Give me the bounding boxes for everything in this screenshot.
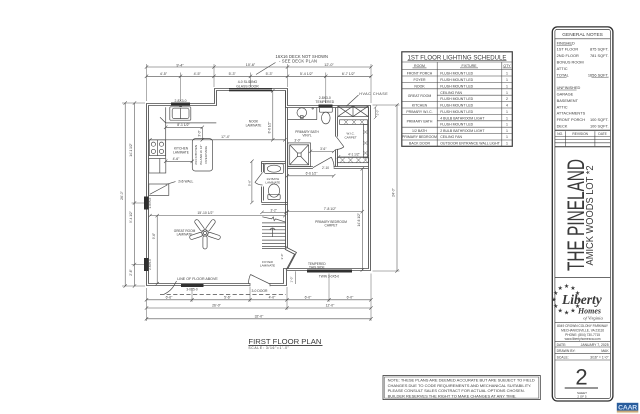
svg-text:- SEE DECK PLAN: - SEE DECK PLAN [279, 59, 317, 64]
svg-text:LINE OF FLOOR ABOVE: LINE OF FLOOR ABOVE [177, 277, 218, 281]
svg-text:BASEMENT: BASEMENT [557, 98, 579, 103]
wall: bedroom top right segment [334, 167, 369, 169]
svg-text:ATTACHMENTS: ATTACHMENTS [557, 111, 586, 116]
svg-text:1: 1 [506, 116, 508, 120]
window W3 left wall upper 2-8X5-0 [144, 197, 149, 210]
svg-text:32'-0": 32'-0" [255, 314, 264, 318]
half bath vanity with oval sink [264, 164, 283, 174]
kitchen sink [170, 106, 191, 120]
dimension tick 1'-0 porch jog [294, 271, 296, 284]
extension lines top [147, 64, 372, 103]
window W4 left wall lower 2-8X5-0 [144, 258, 149, 271]
label: primary bedroom [315, 220, 347, 228]
refrigerator [149, 159, 166, 174]
svg-text:2-8X5-0: 2-8X5-0 [148, 259, 152, 270]
svg-text:OUTDOOR ENTRANCE WALL LIGHT: OUTDOOR ENTRANCE WALL LIGHT [440, 142, 500, 146]
svg-text:LAMINATE: LAMINATE [177, 233, 193, 237]
svg-text:1'-0": 1'-0" [290, 277, 294, 283]
svg-text:FIRST FLOOR PLAN: FIRST FLOOR PLAN [248, 337, 321, 346]
stairs break line [262, 217, 286, 222]
label: sliding glass door [236, 80, 259, 88]
svg-text:2: 2 [506, 97, 508, 101]
svg-text:6'-6": 6'-6" [166, 296, 174, 300]
svg-text:DECK: DECK [557, 124, 568, 129]
svg-text:ATTIC: ATTIC [557, 66, 568, 71]
svg-text:★: ★ [564, 283, 569, 290]
svg-text:7'-8 1/2": 7'-8 1/2" [324, 207, 337, 211]
svg-text:LAMINATE: LAMINATE [265, 181, 280, 185]
shower with X [288, 143, 311, 167]
note box text [388, 378, 535, 399]
svg-text:NOOK: NOOK [414, 84, 425, 88]
label: nook [246, 120, 262, 128]
svg-text:LAMINATE: LAMINATE [246, 123, 262, 127]
svg-text:6'-6 1/2": 6'-6 1/2" [306, 172, 318, 176]
svg-text:1: 1 [506, 110, 508, 114]
lighting schedule table text [402, 55, 511, 146]
wall: foyer angled east wall [285, 247, 297, 270]
svg-text:4'-1 1/2": 4'-1 1/2" [348, 153, 360, 157]
svg-text:CARPET: CARPET [325, 224, 338, 228]
dimension line half bath 5'-6" vertical [250, 160, 253, 205]
dimension line bottom row 1 [145, 298, 373, 301]
svg-text:6'-0": 6'-0" [305, 296, 313, 300]
door: bedroom door panel and swing [313, 157, 334, 168]
svg-text:THIS SIDE: THIS SIDE [309, 266, 325, 270]
date drawn scale rows [555, 342, 611, 360]
svg-text:CAAR: CAAR [618, 404, 637, 411]
ceiling fan great room [189, 219, 221, 249]
leader: 2x6 wall [166, 182, 176, 185]
svg-text:FINISHED: FINISHED [557, 40, 575, 45]
svg-text:5'-3": 5'-3" [266, 72, 274, 76]
svg-text:1: 1 [506, 135, 508, 139]
svg-text:BACK DOOR: BACK DOOR [409, 142, 430, 146]
svg-text:1656 SQFT.: 1656 SQFT. [588, 72, 609, 77]
svg-text:TWIN 3-0X5-0: TWIN 3-0X5-0 [319, 275, 340, 279]
stairs UP arrow [270, 228, 275, 237]
svg-text:2 OF 5: 2 OF 5 [577, 395, 587, 399]
window sliding glass door 4-0 [229, 88, 272, 91]
wall: half bath left lower stub [262, 187, 264, 203]
svg-text:FLUSH MOUNT LED: FLUSH MOUNT LED [440, 78, 473, 82]
svg-text:TEMPERED: TEMPERED [315, 100, 334, 104]
dimension line great room 15'-10 1/2" [148, 214, 286, 217]
svg-text:4'-5": 4'-5" [160, 72, 168, 76]
svg-text:PHONE: (804) 730-7715: PHONE: (804) 730-7715 [565, 333, 600, 337]
svg-text:★: ★ [570, 308, 575, 315]
svg-text:26'-0": 26'-0" [212, 304, 221, 308]
project name: THE PINELAND rotated [564, 159, 590, 271]
svg-text:6'-0": 6'-0" [347, 296, 355, 300]
wire: exterior wall outer face [147, 89, 371, 286]
svg-text:1ST FLOOR LIGHTING SCHEDULE: 1ST FLOOR LIGHTING SCHEDULE [408, 55, 507, 62]
window W1 kitchen north 2-8X3-0 [171, 103, 190, 106]
WIC bottom shelf band [337, 158, 368, 163]
svg-text:5'-6": 5'-6" [247, 180, 251, 186]
svg-text:PRIMARY BATH: PRIMARY BATH [407, 120, 433, 124]
svg-text:★: ★ [551, 296, 556, 303]
dimension line kitchen 4'-6" [164, 160, 194, 163]
svg-text:2'-6": 2'-6" [129, 269, 133, 275]
svg-text:ISLAND W 12": ISLAND W 12" [199, 145, 203, 165]
liberty homes logo stars [551, 283, 582, 316]
svg-text:FLUSH MOUNT LED: FLUSH MOUNT LED [440, 72, 473, 76]
svg-text:5'-6": 5'-6" [224, 296, 232, 300]
svg-text:2-8X3-0: 2-8X3-0 [174, 99, 186, 103]
svg-text:1: 1 [506, 129, 508, 133]
svg-text:NO.: NO. [557, 132, 563, 136]
svg-text:GENERAL NOTES: GENERAL NOTES [562, 32, 603, 38]
svg-text:HVAC CHASE: HVAC CHASE [359, 92, 388, 96]
svg-text:DATE:: DATE: [557, 343, 567, 347]
svg-text:SCALE:: SCALE: [557, 355, 569, 359]
label: kitchen island rotated [194, 145, 208, 165]
wall: nook-bath vertical divider [286, 91, 288, 248]
svg-text:OVERHANG: OVERHANG [204, 145, 208, 163]
window W6 bedroom south twin 3-0X5-0 [307, 270, 352, 273]
kitchen island outline box [192, 139, 212, 171]
svg-text:FLUSH MOUNT LED: FLUSH MOUNT LED [440, 110, 473, 114]
svg-text:KITCHEN: KITCHEN [412, 104, 428, 108]
svg-text:100 SQFT.: 100 SQFT. [590, 124, 609, 129]
svg-text:781 SQFT.: 781 SQFT. [590, 53, 609, 58]
svg-text:of Virginia: of Virginia [583, 315, 603, 320]
dimension line top row A [145, 65, 373, 68]
title underline first floor plan [248, 344, 322, 346]
svg-text:26'-0": 26'-0" [120, 190, 124, 199]
label: great room [174, 229, 196, 237]
WIC right shelf band [363, 124, 367, 157]
svg-text:Liberty: Liberty [561, 292, 603, 307]
dimension line stairs 3'-2" [260, 211, 287, 214]
svg-text:BUILDER RESERVES THE RIGHT TO: BUILDER RESERVES THE RIGHT TO MAKE CHANG… [388, 393, 517, 398]
svg-text:CEILING FAN: CEILING FAN [440, 135, 462, 139]
svg-text:4 BULB BATHROOM LIGHT: 4 BULB BATHROOM LIGHT [440, 116, 485, 120]
svg-text:UNFINISHED: UNFINISHED [557, 85, 581, 90]
svg-text:FLUSH MOUNT LED: FLUSH MOUNT LED [440, 104, 473, 108]
svg-text:12'-0": 12'-0" [326, 304, 335, 308]
svg-text:3-0 DOOR: 3-0 DOOR [251, 289, 268, 293]
label: deck note [276, 54, 329, 64]
leader: deck note [256, 63, 276, 75]
half bath toilet [268, 184, 280, 200]
svg-text:8'-6 1/2": 8'-6 1/2" [267, 122, 271, 134]
svg-text:3'-6": 3'-6" [320, 147, 326, 151]
svg-text:4'-0": 4'-0" [269, 296, 277, 300]
svg-text:Homes: Homes [577, 306, 601, 315]
dimension line bottom row 2 [145, 306, 373, 309]
dimension line kitchen 8'-1 1/2" [164, 126, 204, 142]
svg-text:14'-1 1/2": 14'-1 1/2" [129, 143, 133, 156]
separator below logo [555, 321, 611, 323]
window W5 great room south 3-0X5-0 [181, 284, 204, 287]
svg-text:FLUSH MOUNT LED: FLUSH MOUNT LED [440, 84, 473, 88]
sheet number 2 [565, 365, 598, 399]
WIC top shelf band [340, 120, 368, 125]
svg-text:JANUARY 7, 2025: JANUARY 7, 2025 [581, 343, 609, 347]
stairs treads [262, 223, 286, 244]
svg-text:1ST FLOOR: 1ST FLOOR [557, 47, 579, 52]
wall: half bath left upper [262, 162, 264, 173]
svg-text:★: ★ [553, 290, 558, 297]
svg-text:GREAT ROOM: GREAT ROOM [408, 94, 432, 98]
liberty homes logo script [561, 292, 603, 320]
svg-text:17'-4": 17'-4" [221, 135, 230, 139]
svg-text:875 SQFT.: 875 SQFT. [590, 47, 609, 52]
svg-text:CEILING FAN: CEILING FAN [440, 91, 462, 95]
svg-text:1: 1 [506, 78, 508, 82]
svg-text:1: 1 [506, 84, 508, 88]
label: foyer [260, 260, 275, 268]
label: primary bath [295, 130, 319, 138]
svg-text:www.libertyhomesva.com: www.libertyhomesva.com [565, 337, 601, 341]
wall: WIC left upper [336, 108, 338, 137]
general notes text [557, 40, 609, 128]
svg-text:DRAWN BY:: DRAWN BY: [557, 349, 576, 353]
wall: bedroom top left segment [288, 167, 313, 169]
kitchen counter edges [160, 107, 216, 158]
svg-text:5'-3": 5'-3" [229, 72, 237, 76]
label: tempered this side [308, 262, 326, 270]
dimension line left inner [133, 101, 136, 287]
wall: stairs top [262, 203, 288, 205]
label: half bath [265, 177, 280, 185]
dimension line WIC 4'-1 1/2" [337, 155, 369, 158]
svg-text:FLUSH MOUNT LED: FLUSH MOUNT LED [440, 123, 473, 127]
svg-text:★: ★ [558, 308, 563, 315]
svg-text:DATE: DATE [598, 132, 607, 136]
svg-text:1: 1 [506, 72, 508, 76]
svg-text:9'-6": 9'-6" [152, 233, 156, 239]
title block outer border [552, 27, 613, 401]
leader: hvac chase [346, 95, 359, 107]
dimension line hall 6'-6 1/2" [286, 174, 336, 177]
svg-text:2X4 KITCHEN: 2X4 KITCHEN [194, 145, 198, 165]
svg-text:14'-6 1/2": 14'-6 1/2" [357, 213, 361, 226]
svg-text:8049 CROWN COLONY PARKWAY: 8049 CROWN COLONY PARKWAY [557, 324, 609, 328]
svg-text:3'-0": 3'-0" [280, 254, 284, 260]
svg-text:★: ★ [564, 309, 569, 316]
svg-text:TOTAL: TOTAL [557, 72, 570, 77]
separator above logo [555, 277, 611, 279]
door: front entry swing [248, 275, 270, 285]
svg-text:FLUSH MOUNT LED: FLUSH MOUNT LED [440, 97, 473, 101]
svg-text:SCALE: 3/16"=1'-0": SCALE: 3/16"=1'-0" [248, 346, 289, 350]
extension lines bottom [147, 274, 372, 322]
svg-text:QTY: QTY [503, 64, 511, 68]
svg-text:MECHANICSVILLE, VA 23116: MECHANICSVILLE, VA 23116 [561, 328, 604, 332]
svg-text:LAMINATE: LAMINATE [173, 150, 189, 154]
door: half bath door panel and swing [255, 172, 263, 185]
label: kitchen [173, 147, 189, 155]
door: WIC door panel [336, 137, 344, 150]
revision table header text [557, 132, 607, 136]
svg-text:3'-0": 3'-0" [198, 130, 202, 136]
dimension line left outer 36'-0" [124, 101, 127, 287]
svg-text:8'-1 1/2": 8'-1 1/2" [177, 123, 190, 127]
stairs bottom landing edge [262, 247, 287, 249]
dimension line bath 3'-6" [309, 150, 336, 153]
svg-text:1/2 BATH: 1/2 BATH [412, 129, 427, 133]
dimension line great room 9'-6" vertical [156, 214, 159, 285]
primary bath toilet [319, 107, 332, 124]
wire: exterior wall inner face [149, 91, 369, 284]
dimension line top row B [145, 75, 373, 78]
svg-text:LAMINATE: LAMINATE [260, 264, 275, 268]
svg-text:100 SQFT.: 100 SQFT. [590, 117, 609, 122]
primary bath vanity counter [287, 107, 317, 119]
range / stove [149, 140, 165, 156]
svg-text:2 BULB BATHROOM LIGHT: 2 BULB BATHROOM LIGHT [440, 129, 485, 133]
svg-text:5'-4 1/2": 5'-4 1/2" [300, 72, 314, 76]
svg-text:12'-0": 12'-0" [324, 63, 334, 67]
svg-text:3/16" = 1'-0": 3/16" = 1'-0" [590, 355, 609, 359]
svg-text:10'-6": 10'-6" [246, 63, 256, 67]
svg-text:2'-0": 2'-0" [375, 110, 379, 116]
window W2 bath north tempered [319, 105, 333, 108]
pantry closet with door [149, 184, 169, 195]
svg-text:ROOM: ROOM [414, 64, 425, 68]
svg-text:4'-5": 4'-5" [194, 72, 202, 76]
general notes underlines [557, 45, 609, 90]
svg-text:VINYL: VINYL [302, 133, 311, 137]
svg-text:AMICK WOODS LOT *2: AMICK WOODS LOT *2 [584, 166, 595, 266]
svg-text:2: 2 [575, 365, 587, 390]
address block [557, 324, 609, 341]
svg-text:24'-0": 24'-0" [392, 187, 396, 196]
svg-text:4'-6": 4'-6" [173, 157, 181, 161]
project name: AMICK WOODS LOT 2 rotated [584, 166, 595, 266]
svg-text:FIXTURE: FIXTURE [462, 64, 478, 68]
title block inner border [555, 30, 611, 399]
general notes header [555, 32, 611, 39]
dashed line of floor above [160, 281, 286, 295]
svg-text:3-0X5-0: 3-0X5-0 [186, 287, 198, 291]
extension lines left [122, 103, 145, 286]
dimension line bedroom 7'-8 1/2" [286, 210, 364, 213]
node front-door-gap [250, 283, 270, 288]
wall: WIC left lower [336, 149, 338, 166]
svg-text:1: 1 [506, 123, 508, 127]
svg-text:4: 4 [506, 104, 508, 108]
svg-text:2-8X5-0: 2-8X5-0 [148, 197, 152, 208]
svg-text:2x6 WALL: 2x6 WALL [178, 179, 193, 183]
revision table [555, 130, 611, 147]
extension lines right [373, 105, 400, 271]
note box frame [383, 376, 540, 400]
dimension line nook 17'-4" [148, 138, 286, 141]
svg-text:MAK: MAK [601, 349, 609, 353]
svg-text:3'-2": 3'-2" [271, 209, 277, 213]
svg-text:PRIMARY BEDROOM: PRIMARY BEDROOM [402, 135, 437, 139]
svg-text:FRONT PORCH: FRONT PORCH [407, 72, 433, 76]
svg-text:2ND FLOOR: 2ND FLOOR [557, 53, 579, 58]
svg-text:6'-7 1/2": 6'-7 1/2" [342, 72, 356, 76]
lighting schedule table frame [402, 52, 513, 147]
svg-text:CARPET: CARPET [345, 135, 357, 139]
dimension tick 2'-0 chase [374, 105, 377, 119]
svg-text:REVISION: REVISION [572, 132, 588, 136]
svg-text:15'-10 1/2": 15'-10 1/2" [197, 211, 214, 215]
svg-text:2'-10: 2'-10 [322, 166, 329, 170]
svg-text:FRONT PORCH: FRONT PORCH [557, 117, 586, 122]
HVAC chase box with X cells [338, 106, 369, 117]
svg-text:GLASS DOOR: GLASS DOOR [236, 84, 259, 88]
svg-text:BONUS ROOM: BONUS ROOM [557, 60, 584, 65]
label: window 2-8X3-0 tempered [315, 96, 334, 104]
svg-text:FOYER: FOYER [413, 78, 426, 82]
svg-text:9'-4": 9'-4" [176, 63, 184, 67]
svg-text:PRIMARY W.I.C.: PRIMARY W.I.C. [406, 110, 432, 114]
dimension line bottom row 3 [145, 317, 373, 320]
svg-text:★: ★ [558, 285, 563, 292]
svg-text:1: 1 [506, 91, 508, 95]
dimension line nook 8'-6 1/2" vertical [271, 89, 274, 141]
label: wic [345, 132, 357, 140]
svg-text:ATTIC: ATTIC [557, 104, 568, 109]
svg-text:9'-4 1/2": 9'-4 1/2" [129, 211, 133, 223]
svg-text:GARAGE: GARAGE [557, 92, 574, 97]
wall: half bath top [262, 162, 286, 164]
dimension line right 24'-0" [395, 103, 398, 272]
dimension line bedroom 14'-6 1/2" vertical [361, 167, 364, 272]
svg-text:1: 1 [506, 142, 508, 146]
svg-text:3'-0": 3'-0" [294, 139, 300, 143]
